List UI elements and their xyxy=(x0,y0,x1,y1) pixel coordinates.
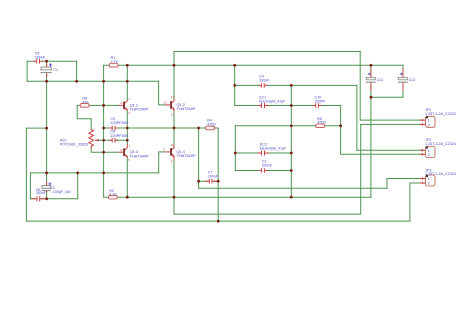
capacitor C4 xyxy=(258,83,267,88)
wire Q1.2 emitter to Q1.4 collector vertical xyxy=(173,111,175,146)
svg-text:THAT340P: THAT340P xyxy=(130,107,149,112)
wire RV1 bottom lead to Q1.3 base row xyxy=(91,149,118,153)
svg-text:330nF: 330nF xyxy=(262,163,273,167)
wire Q1.1 emitter to Q1.3 collector vertical xyxy=(126,111,128,144)
wire EC2 row y153 xyxy=(235,152,291,154)
wire EC1 row y105.5 xyxy=(235,105,341,107)
wire R6 row to Q1.1 base xyxy=(77,104,118,106)
svg-text:2: 2 xyxy=(428,122,430,127)
wire R4 right vertical down through C7 to H4 xyxy=(217,128,219,221)
svg-text:220PF50V: 220PF50V xyxy=(110,134,128,138)
wire rail y81 to Q1.2 base corner xyxy=(27,80,159,82)
resistor R6 xyxy=(80,104,89,108)
capacitor C10 xyxy=(312,103,321,108)
wire x291.3 vertical xyxy=(290,85,292,197)
capacitor C7 xyxy=(205,179,217,184)
wire y128 link to C1/C2 vertical xyxy=(26,127,46,129)
wire riser to Q1.2 base xyxy=(159,81,165,105)
wire Q1.2 collector vertical and top corner xyxy=(173,52,175,99)
wire C11 C12 bottom rail xyxy=(371,96,403,98)
svg-text:4.7K: 4.7K xyxy=(111,60,119,64)
wire C8 row y140.3 from RV1 wiper xyxy=(97,139,127,141)
wire bottom-left rail with C6 xyxy=(30,198,77,200)
wire JP1 pin2 horizontal xyxy=(361,123,423,125)
svg-text:330nF: 330nF xyxy=(259,79,270,83)
wire vertical x360.7 JP1 pin2 down to H3 xyxy=(360,124,362,214)
svg-text:POT100K_3362U: POT100K_3362U xyxy=(60,143,89,147)
wire riser to Q1.4 base xyxy=(159,152,165,173)
svg-text:470Ω: 470Ω xyxy=(317,121,326,125)
wire R6 left drop xyxy=(77,105,91,129)
wire x234.7 vertical from y65 xyxy=(234,65,236,105)
transistor Q1.1 THAT340P xyxy=(118,100,127,111)
wire top C5 loop horizontal xyxy=(27,60,77,62)
svg-text:12: 12 xyxy=(171,112,175,116)
capacitor C5 xyxy=(34,59,43,64)
wire C12 leads xyxy=(402,65,404,97)
svg-text:C11: C11 xyxy=(377,78,384,82)
transistor Q1.4 THAT340P xyxy=(165,146,175,160)
wire y172.9 row xyxy=(30,172,158,174)
svg-text:330nF: 330nF xyxy=(35,56,46,60)
wire C11 bottom vertical to rail xyxy=(370,97,372,197)
wire C4 right vertical to JP2 pin1 xyxy=(357,85,423,150)
connector JP1 xyxy=(420,116,435,127)
wire right vertical of C5 loop xyxy=(76,61,78,81)
wire JP1 pin1 horizontal xyxy=(360,119,422,121)
wire main left vertical x103.6 xyxy=(103,65,105,197)
wire V to JP1 pin1 xyxy=(359,52,361,121)
wire y65 R1 row to C12 xyxy=(104,64,403,66)
connector JP2 xyxy=(420,146,435,157)
wire x77.7 vertical xyxy=(77,173,79,199)
wire C2 vertical leads xyxy=(46,173,48,199)
resistor R2 xyxy=(109,195,118,199)
wire C11 leads xyxy=(370,65,372,97)
wire R8 row y125.8 xyxy=(235,125,340,127)
wire x235.3 vertical xyxy=(234,126,236,171)
svg-text:13: 13 xyxy=(163,101,167,105)
svg-text:470Ω: 470Ω xyxy=(207,122,216,126)
svg-text:100µF_16v: 100µF_16v xyxy=(53,190,71,194)
resistor R4 xyxy=(206,126,215,130)
capacitor EC1 electrolytic xyxy=(257,103,269,108)
wire C7 row xyxy=(199,180,219,182)
capacitor C9 xyxy=(109,126,118,131)
transistor Q1.2 THAT340P xyxy=(165,99,175,112)
wire C3 row y170.5 xyxy=(235,170,291,172)
capacitor EC2 electrolytic xyxy=(257,151,269,156)
svg-text:2: 2 xyxy=(428,181,430,186)
wire left vertical of C5/C1 loop xyxy=(26,61,28,81)
wire H3 horizontal xyxy=(174,213,361,215)
capacitor C1 polarized xyxy=(41,63,53,77)
capacitor C3 xyxy=(258,168,267,173)
wire x340.7 vertical to JP2 pin2 xyxy=(341,106,423,155)
capacitor C11 polarized xyxy=(366,69,376,91)
transistor pin numbers (red) xyxy=(120,95,174,164)
wire Q1.4 emitter vertical to H3 xyxy=(173,160,175,214)
svg-text:14: 14 xyxy=(171,95,175,99)
labels (blue) xyxy=(35,51,456,196)
svg-text:2: 2 xyxy=(428,152,430,157)
wire C4 row y85.4 xyxy=(235,84,357,86)
potentiometer RV1 xyxy=(89,130,98,149)
wire H4 bottom long horizontal to JP3 pin2 riser xyxy=(26,220,410,222)
connector JP3 xyxy=(420,175,435,186)
svg-text:C1: C1 xyxy=(53,68,58,72)
svg-text:1.25T-1.2A_C2324: 1.25T-1.2A_C2324 xyxy=(425,172,456,176)
wire Q1.3 emitter vertical to rail xyxy=(126,158,128,198)
wire bottom-left loop left vertical xyxy=(29,173,31,199)
svg-text:THAT340P: THAT340P xyxy=(177,153,196,158)
transistor Q1.3 THAT340P xyxy=(118,144,127,158)
svg-text:THAT340P: THAT340P xyxy=(130,154,149,159)
resistor R8 xyxy=(316,124,325,128)
capacitor C12 polarized xyxy=(398,69,408,91)
svg-text:Electrolytic_47µF: Electrolytic_47µF xyxy=(259,99,285,103)
svg-text:330nF: 330nF xyxy=(36,191,47,195)
svg-text:330nF: 330nF xyxy=(208,174,219,178)
wire far-left long vertical xyxy=(25,128,27,221)
wire H2 ground rail xyxy=(104,196,372,198)
capacitor C6 xyxy=(32,196,45,201)
svg-text:10: 10 xyxy=(171,143,175,147)
wire C1-C2 long vertical xyxy=(46,81,48,173)
svg-text:47K: 47K xyxy=(82,100,89,104)
svg-text:330PF: 330PF xyxy=(315,99,326,103)
svg-text:220PF50V: 220PF50V xyxy=(110,121,128,125)
capacitor C2 polarized xyxy=(42,181,52,192)
svg-text:1.25T-1.2A_C2324: 1.25T-1.2A_C2324 xyxy=(425,112,456,116)
wire Q1.1 collector vertical xyxy=(126,65,128,100)
svg-text:1.25T-1.2A_C2324: 1.25T-1.2A_C2324 xyxy=(425,142,456,146)
svg-text:C12: C12 xyxy=(409,78,416,82)
wire H1 to JP3 pin1 riser xyxy=(199,187,387,189)
wire C7 left vertical xyxy=(198,128,200,188)
capacitor C8 xyxy=(109,138,118,143)
svg-text:Electrolytic_47µF: Electrolytic_47µF xyxy=(260,146,286,150)
wire JP3 pin2 horizontal and drop xyxy=(410,183,423,221)
svg-text:4.7K: 4.7K xyxy=(109,193,117,197)
wire top rail y51 xyxy=(174,51,360,53)
wire C9 row y128 to R4 right corner xyxy=(104,127,219,129)
resistor R1 xyxy=(109,64,118,68)
wire JP3 pin1 riser and horizontal xyxy=(387,179,423,189)
svg-text:THAT340P: THAT340P xyxy=(177,106,196,111)
wire C1 vertical leads xyxy=(46,61,48,81)
